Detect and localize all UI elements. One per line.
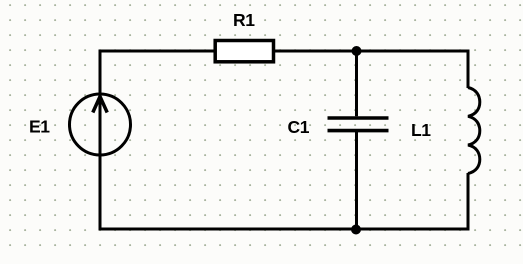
wire C1 branch upper <box>355 51 358 116</box>
capacitor C1 <box>328 118 389 131</box>
wire bottom segment from node to L1 branch <box>357 228 470 231</box>
wire L1 branch lower <box>467 173 470 231</box>
svg-text:E1: E1 <box>29 117 50 137</box>
svg-text:C1: C1 <box>288 117 310 137</box>
wire top segment from node to L1 branch <box>357 50 470 53</box>
wire L1 branch upper <box>467 50 470 89</box>
wire top segment from R1 to node at C1 <box>273 50 357 53</box>
resistor R1 <box>215 41 273 62</box>
inductor L1 <box>468 88 480 174</box>
node junction bottom <box>351 225 361 235</box>
wire left branch vertical <box>99 50 102 231</box>
wire C1 branch lower <box>355 132 358 229</box>
wire bottom segment from E1 branch to node <box>99 228 357 231</box>
voltage source E1 <box>70 94 131 155</box>
node junction top <box>352 46 362 56</box>
wire top segment from E1 branch to R1 <box>100 50 215 53</box>
svg-text:L1: L1 <box>411 120 431 140</box>
svg-text:R1: R1 <box>233 10 255 30</box>
